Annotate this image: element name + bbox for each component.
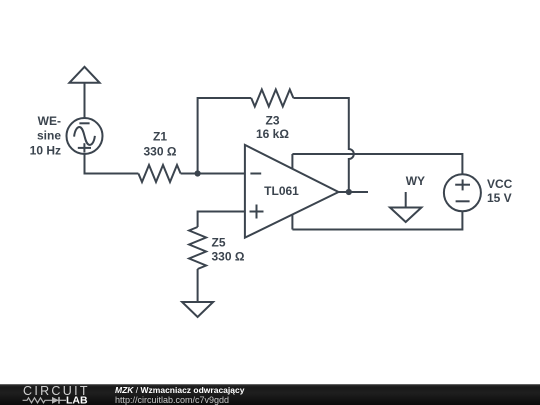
wire Z3 to output with hop over V+ rail [293,98,353,192]
label VCC 15 V [487,177,513,205]
wire source to Z1 [85,154,139,174]
svg-text:LAB: LAB [66,395,88,405]
wire V+ rail to VCC [292,154,462,174]
svg-text:Z5: Z5 [212,235,226,249]
svg-text:TL061: TL061 [264,184,299,198]
wire V- pin stub [291,215,293,230]
wire V- rail to VCC [292,211,462,229]
logo resistor-diode glyph [23,398,59,403]
node output junction [346,189,352,195]
resistor Z3 [251,90,293,107]
label Z1 330 ohm [144,130,177,159]
op-amp U1 TL061 [245,145,339,238]
svg-text:WY: WY [406,174,425,188]
svg-text:330 Ω: 330 Ω [144,144,177,158]
voltage source V1 (WE-sine) [67,118,103,154]
wire Z5 to ground [197,269,199,302]
label Z3 16 kohm [256,113,289,141]
wire op-amp non-inverting input to Z5 [198,212,245,228]
svg-text:15 V: 15 V [487,191,512,205]
net flag WY (down arrow) [390,192,421,222]
resistor Z5 [189,227,206,269]
svg-text:Z3: Z3 [265,113,279,127]
wire op-amp output [339,191,369,193]
CircuitLab logo [22,385,94,405]
resistor Z1 [138,165,180,182]
wire V+ pin stub [291,154,293,169]
svg-text:sine: sine [37,129,61,143]
ground [182,302,213,317]
wire junction up to Z3 [198,98,252,174]
footer bar [0,384,540,405]
svg-text:VCC: VCC [487,177,513,191]
node A (inverting input junction) [195,170,201,176]
terminal WE (up arrow) [69,67,99,118]
label WE-sine 10 Hz [30,114,62,158]
wire Z1 to op-amp inverting input [181,173,245,175]
svg-text:16 kΩ: 16 kΩ [256,127,289,141]
svg-text:WE-: WE- [38,114,61,128]
svg-text:330 Ω: 330 Ω [212,250,245,264]
footer text [115,385,244,405]
label Z5 330 ohm [212,235,245,263]
svg-text:Z1: Z1 [153,130,167,144]
voltage source V2 (VCC) [444,174,481,211]
svg-text:10 Hz: 10 Hz [30,143,61,157]
